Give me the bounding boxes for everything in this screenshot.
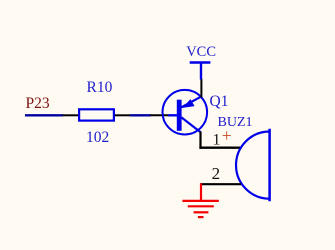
wire collector to buzzer pin 1 — [199, 132, 240, 149]
ground — [182, 183, 218, 217]
svg-text:Q1: Q1 — [210, 93, 229, 110]
power port VCC — [190, 63, 211, 80]
svg-text:102: 102 — [86, 129, 109, 146]
wire — [130, 114, 151, 116]
resistor R10 — [63, 109, 131, 120]
svg-text:+: + — [222, 125, 232, 145]
transistor Q1 — [150, 79, 207, 135]
svg-text:R10: R10 — [87, 79, 113, 96]
svg-text:2: 2 — [212, 164, 221, 183]
svg-text:VCC: VCC — [186, 44, 216, 60]
svg-text:1: 1 — [213, 131, 221, 148]
buzzer BUZ1 — [236, 129, 270, 201]
wire buzzer pin 2 — [200, 183, 241, 185]
wire net P23 — [25, 114, 63, 116]
svg-text:P23: P23 — [26, 95, 50, 112]
